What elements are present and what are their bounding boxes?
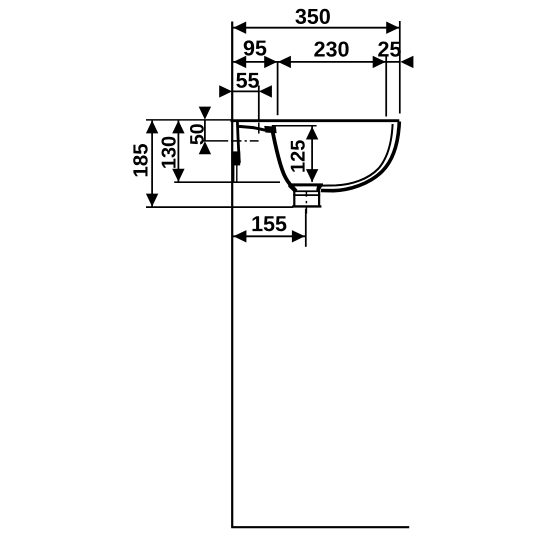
label 95 bbox=[244, 40, 267, 55]
arrow 55 outside right bbox=[259, 85, 272, 97]
arrow 125 top bbox=[306, 127, 318, 140]
dimension line 130 bbox=[177, 121, 179, 182]
arrow 95 right bbox=[264, 56, 277, 68]
drain box second line bbox=[293, 194, 320, 196]
dimension line 185 bbox=[151, 121, 153, 207]
arrow 230 right bbox=[373, 56, 386, 68]
arrow 350 right bbox=[386, 22, 399, 34]
arrow 155 left bbox=[233, 230, 246, 242]
drain centerline dash-dot bbox=[305, 191, 307, 197]
label 50 bbox=[190, 124, 204, 144]
arrow 130 top bbox=[172, 120, 184, 133]
funnel right slant bbox=[319, 186, 321, 191]
deck/bowl junction blob bbox=[264, 126, 276, 133]
label 185 bbox=[133, 144, 148, 176]
drain box left edge bbox=[293, 191, 295, 207]
arrow 55 outside left bbox=[219, 85, 232, 97]
dimension line 50 bbox=[204, 120, 206, 141]
label 25 bbox=[378, 42, 401, 57]
label 55 bbox=[236, 73, 259, 88]
dimension line 95/230/25 bbox=[233, 61, 400, 63]
bolt channel line b bbox=[236, 165, 238, 183]
arrow 25 outside right bbox=[400, 56, 413, 68]
arrow 230 left bbox=[278, 56, 291, 68]
basin rim top line bbox=[231, 119, 400, 122]
dimension line 350 bbox=[233, 27, 399, 29]
arrow 50 outside top bbox=[199, 107, 211, 120]
basin outer front curve bbox=[321, 122, 399, 191]
extension line at 95/230 boundary bbox=[277, 62, 279, 115]
extension line 50 bottom (solid part) bbox=[202, 140, 229, 142]
basin inner rim line / 125 top extension bbox=[272, 125, 317, 127]
arrow 350 left bbox=[233, 22, 246, 34]
fixing bracket blob bbox=[231, 151, 240, 165]
top extension line for left dims bbox=[146, 119, 232, 121]
arrow 185 top bbox=[146, 120, 158, 133]
extension line at 230/25 boundary bbox=[385, 57, 387, 117]
label 125 bbox=[291, 140, 305, 171]
drain box top line bbox=[293, 190, 320, 192]
arrow 130 bottom bbox=[172, 169, 184, 182]
arrow 155 right bbox=[292, 230, 305, 242]
extension line 185 bottom bbox=[146, 206, 293, 208]
basin underside line / 130 bottom extension bbox=[174, 181, 280, 183]
basin back inner bowl wall bbox=[272, 127, 296, 191]
bolt channel line a bbox=[233, 165, 235, 183]
dimension line 125 bbox=[311, 127, 313, 182]
arrow 125 bottom bbox=[306, 169, 318, 182]
arrow 95 left bbox=[233, 56, 246, 68]
dimension line 155 bbox=[233, 235, 305, 237]
deck underside line bbox=[239, 126, 266, 130]
label 130 bbox=[162, 137, 176, 168]
drain box right edge bbox=[318, 191, 320, 207]
wall line (vertical, extension + wall down to floor) bbox=[231, 22, 233, 528]
funnel right wedge bbox=[316, 185, 323, 191]
arrow 185 bottom bbox=[146, 194, 158, 207]
extension line right of 350 dim bbox=[399, 21, 401, 114]
label 155 bbox=[253, 216, 287, 231]
dimension line 55 bbox=[233, 90, 259, 92]
basin back wall line bbox=[237, 122, 239, 163]
extension line 55 right / tap hole axis bbox=[258, 86, 260, 120]
tap hole dashed axis through deck bbox=[258, 123, 260, 128]
funnel left slant bbox=[290, 186, 295, 191]
bowl bottom band bbox=[288, 183, 323, 186]
arrow 50 outside bottom bbox=[199, 141, 211, 154]
drain box bottom bar bbox=[292, 205, 321, 207]
label 230 bbox=[314, 42, 348, 57]
extension line 155 right bbox=[305, 209, 307, 247]
basin inner front wall bbox=[322, 124, 393, 186]
fixing axis dash-dot inside basin bbox=[231, 140, 242, 142]
label 350 bbox=[295, 9, 330, 24]
floor line bbox=[231, 526, 409, 528]
funnel left wedge bbox=[288, 184, 296, 192]
